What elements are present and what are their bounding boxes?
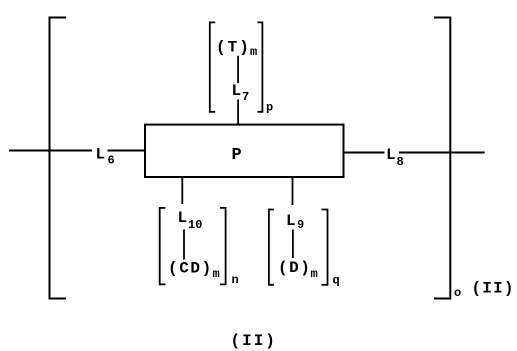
- outer left bracket: [50, 18, 67, 299]
- svg-text:L: L: [386, 146, 396, 164]
- svg-text:(II): (II): [472, 280, 515, 298]
- svg-text:q: q: [333, 274, 340, 288]
- svg-text:n: n: [232, 273, 239, 287]
- svg-text:L: L: [286, 212, 296, 230]
- svg-text:(CD): (CD): [168, 260, 213, 278]
- wire: P box down-left to bracket group n: [181, 177, 183, 204]
- bottom-left inner bracket pair: right: [220, 208, 226, 285]
- svg-text:9: 9: [297, 218, 304, 232]
- wire: P box to L8: [345, 152, 385, 154]
- svg-text:7: 7: [242, 90, 249, 104]
- svg-text:L: L: [232, 82, 242, 100]
- svg-text:m: m: [213, 267, 220, 281]
- wire: L9 down to (D): [292, 230, 294, 259]
- P box: [145, 125, 344, 177]
- wire: (T) down to L7: [237, 56, 239, 83]
- svg-text:8: 8: [397, 155, 404, 169]
- svg-text:L: L: [178, 209, 188, 227]
- wire: left terminal bond: [9, 150, 92, 152]
- svg-text:(II): (II): [231, 332, 277, 350]
- svg-text:10: 10: [188, 218, 202, 232]
- wire: L7 down to P box: [237, 100, 239, 125]
- svg-text:P: P: [232, 146, 242, 165]
- wire: L6 to P box: [108, 150, 146, 152]
- svg-text:m: m: [311, 267, 318, 281]
- bottom-left inner bracket pair: left: [160, 208, 166, 285]
- svg-text:(D): (D): [278, 259, 311, 277]
- svg-text:L: L: [96, 146, 106, 164]
- svg-text:m: m: [250, 45, 257, 59]
- svg-text:(T): (T): [216, 39, 251, 57]
- svg-text:6: 6: [108, 154, 115, 168]
- wire: P box down-right to bracket group q: [292, 177, 294, 205]
- wire: L10 down to (CD): [183, 230, 185, 260]
- wire: L8 to right terminal: [399, 152, 485, 154]
- bottom-right inner bracket pair: left: [269, 210, 274, 285]
- top inner bracket pair: left: [210, 22, 215, 111]
- svg-text:p: p: [266, 101, 273, 115]
- outer right bracket: [434, 18, 450, 299]
- top inner bracket pair: right: [258, 22, 263, 111]
- bottom-right inner bracket pair: right: [322, 210, 328, 285]
- svg-text:o: o: [454, 286, 461, 300]
